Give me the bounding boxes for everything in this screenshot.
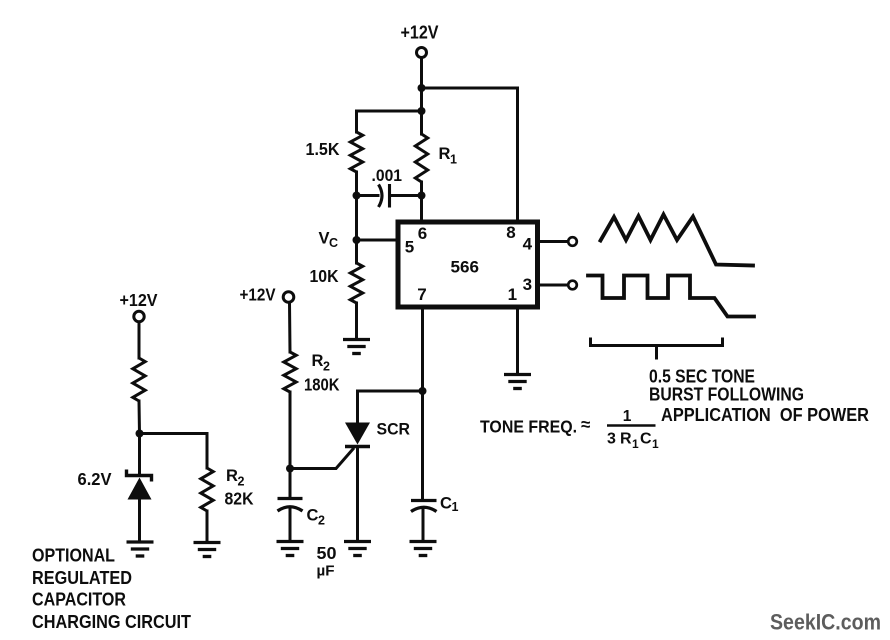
wire node A to pin 8 rail [422, 88, 518, 222]
svg-text:3: 3 [607, 431, 616, 448]
resistor R2 82K [201, 468, 213, 511]
power +12V label (top) [401, 23, 439, 43]
svg-text:1: 1 [632, 437, 639, 451]
junction node F [286, 465, 294, 473]
svg-text:BURST FOLLOWING: BURST FOLLOWING [649, 385, 804, 405]
pin 8 number [506, 223, 515, 242]
svg-text:4: 4 [523, 234, 533, 253]
wire +12V terminal to node A [420, 58, 423, 88]
svg-text:SCR: SCR [377, 420, 411, 439]
wire node G to R2 82K [140, 434, 208, 469]
caption APPLICATION OF POWER [661, 405, 869, 425]
pin 6 number [418, 224, 427, 243]
svg-text:µF: µF [317, 563, 335, 580]
label C2 [307, 507, 326, 528]
ground below pin 1 [504, 375, 531, 389]
ground below C2 [277, 542, 304, 556]
label 50 value [317, 543, 337, 563]
label µF unit [317, 563, 335, 580]
caption REGULATED [32, 567, 132, 588]
svg-text:1: 1 [508, 285, 517, 304]
formula fraction bar [607, 424, 656, 427]
wire node B to R1 top [420, 111, 423, 134]
wire node D to pin 6 [420, 196, 423, 223]
svg-text:566: 566 [451, 258, 480, 277]
svg-text:.001: .001 [372, 166, 403, 185]
junction node B [418, 107, 426, 115]
duration brace [591, 338, 723, 360]
svg-text:V: V [319, 230, 330, 248]
resistor 1.5K [350, 132, 362, 172]
caption 0.5 SEC TONE [649, 367, 755, 387]
caption CHARGING CIRCUIT [32, 611, 192, 632]
svg-text:8: 8 [506, 223, 515, 242]
label 6.2V [78, 469, 112, 489]
svg-text:CHARGING CIRCUIT: CHARGING CIRCUIT [32, 611, 192, 632]
resistor charging (unlabeled) [133, 358, 145, 401]
ground below SCR [344, 542, 371, 556]
capacitor C2 [278, 499, 303, 512]
svg-text:CAPACITOR: CAPACITOR [32, 589, 126, 610]
output terminal at pin 4 [568, 237, 577, 246]
wire node E to C1 [421, 391, 424, 500]
label C1 [440, 495, 459, 515]
wire node A to node B [420, 88, 423, 111]
capacitor .001 with leads [357, 184, 422, 208]
power +12V terminal (top) [417, 48, 427, 58]
junction node D [418, 192, 426, 200]
label 82K value [225, 489, 254, 509]
junction node E [419, 387, 427, 395]
svg-text:6.2V: 6.2V [78, 469, 112, 489]
wire +12V (middle) to R2 top [288, 303, 292, 353]
SCR Q1 thyristor [345, 423, 370, 447]
junction node C [353, 192, 361, 200]
label 1.5K value [306, 139, 340, 159]
power +12V terminal (middle) [283, 292, 294, 303]
power +12V label (middle) [240, 285, 276, 305]
svg-text:R: R [312, 352, 324, 370]
svg-text:APPLICATION OF POWER: APPLICATION OF POWER [661, 405, 869, 425]
junction node G [136, 430, 144, 438]
svg-text:2: 2 [238, 475, 245, 489]
capacitor C1 [411, 501, 437, 512]
wire 10K bottom to ground [355, 303, 358, 339]
svg-text:1.5K: 1.5K [306, 139, 340, 159]
svg-text:R: R [439, 145, 451, 163]
svg-text:82K: 82K [225, 489, 254, 509]
svg-text:6: 6 [418, 224, 427, 243]
formula numerator 1 [623, 408, 632, 425]
square waveform (pin 3 output) [588, 276, 754, 317]
svg-text:3: 3 [523, 275, 532, 294]
svg-text:7: 7 [417, 285, 426, 304]
wire pin 4 to output terminal [538, 240, 568, 243]
power +12V terminal (left) [134, 311, 144, 321]
svg-text:C: C [640, 431, 652, 448]
svg-text:2: 2 [318, 514, 325, 528]
wire node E to SCR anode [358, 391, 423, 423]
svg-text:1: 1 [452, 500, 459, 514]
watermark SeekIC.com [770, 610, 881, 635]
output terminal at pin 3 [568, 281, 577, 290]
svg-text:C: C [329, 236, 338, 250]
svg-text:R: R [620, 431, 632, 448]
wire pin 7 to node E [421, 307, 424, 391]
svg-text:+12V: +12V [401, 23, 439, 43]
svg-text:+12V: +12V [120, 290, 158, 310]
wire node VC to 10K top [355, 240, 358, 263]
caption CAPACITOR [32, 589, 126, 610]
label .001 value [372, 166, 403, 185]
pin 5 number [405, 238, 414, 257]
IC U1 566 outline [398, 222, 538, 307]
pin 3 number [523, 275, 532, 294]
svg-text:180K: 180K [304, 375, 340, 395]
svg-text:+12V: +12V [240, 285, 276, 305]
zener diode D1 6.2V [127, 470, 152, 500]
svg-text:10K: 10K [310, 266, 339, 286]
svg-text:OPTIONAL: OPTIONAL [32, 545, 115, 566]
label 180K value [304, 375, 340, 395]
power +12V label (left) [120, 290, 158, 310]
wire resistor to node G [138, 401, 142, 434]
caption OPTIONAL [32, 545, 115, 566]
ground below 82K [194, 543, 221, 557]
formula approx sign [581, 415, 590, 434]
wire node G to zener [138, 434, 141, 476]
wire node B to 1.5K resistor top [357, 111, 422, 132]
label 566 [451, 258, 480, 277]
ground below zener [127, 542, 154, 556]
formula TONE FREQ label [480, 417, 577, 437]
wire R2 bottom to node F [289, 392, 292, 469]
SCR gate wire to node F [291, 449, 353, 469]
wire node C to node VC [355, 196, 358, 241]
svg-text:C: C [440, 495, 452, 513]
svg-text:SeekIC.com: SeekIC.com [770, 610, 881, 635]
pin 1 number [508, 285, 517, 304]
ground below C1 [410, 542, 437, 556]
wire +12V (left) to resistor [138, 323, 141, 359]
wire SCR cathode to ground [356, 447, 359, 542]
svg-text:0.5 SEC TONE: 0.5 SEC TONE [649, 367, 755, 387]
wire C2 to ground [289, 508, 292, 541]
wire 82K to ground [206, 511, 209, 542]
label R2 (82K) [226, 467, 245, 489]
resistor R1 [415, 134, 427, 182]
pin 4 number [523, 234, 533, 253]
svg-text:5: 5 [405, 238, 414, 257]
junction node A [418, 84, 426, 92]
resistor 10K [350, 263, 362, 303]
label SCR [377, 420, 411, 439]
svg-text:1: 1 [623, 408, 632, 425]
pin 7 number [417, 285, 426, 304]
label R1 [439, 145, 458, 167]
wire node F to C2 [289, 469, 292, 499]
wire pin 1 to ground [516, 307, 519, 374]
svg-text:REGULATED: REGULATED [32, 567, 132, 588]
svg-text:≈: ≈ [581, 415, 590, 434]
formula denominator 3R1C1 [607, 431, 659, 452]
node VC label [319, 230, 339, 251]
label 10K value [310, 266, 339, 286]
svg-text:50: 50 [317, 543, 337, 563]
caption BURST FOLLOWING [649, 385, 804, 405]
svg-text:C: C [307, 507, 319, 525]
wire R1 bottom to node D [420, 182, 423, 196]
svg-text:2: 2 [323, 360, 330, 374]
ground below 10K [343, 340, 370, 354]
svg-text:1: 1 [652, 437, 659, 451]
junction node VC [353, 236, 361, 244]
wire zener to ground [138, 500, 141, 542]
triangle waveform (pin 4 output) [601, 215, 754, 266]
svg-text:1: 1 [450, 153, 457, 167]
wire C1 to ground [422, 509, 425, 541]
wire node VC to pin 5 [357, 239, 399, 242]
resistor R2 180K [284, 352, 296, 392]
wire pin 3 to output terminal [538, 284, 568, 287]
svg-text:TONE FREQ.: TONE FREQ. [480, 417, 577, 437]
svg-text:R: R [226, 467, 238, 485]
label R2 (180K) [312, 352, 331, 374]
wire 1.5K bottom to node C [355, 172, 358, 196]
